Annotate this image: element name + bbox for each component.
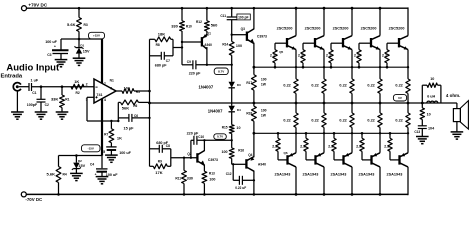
- svg-text:7: 7: [104, 82, 106, 86]
- svg-text:560: 560: [211, 23, 218, 28]
- svg-text:2.2: 2.2: [326, 54, 331, 58]
- resistor R6 56K feedback: [118, 101, 120, 103]
- capacitor C10 220 pF: [190, 140, 192, 157]
- svg-text:100pF: 100pF: [27, 103, 38, 107]
- svg-text:2.2: 2.2: [384, 144, 389, 148]
- svg-text:Q6: Q6: [284, 151, 288, 155]
- node feedback junctions: [117, 120, 119, 122]
- svg-text:741: 741: [96, 93, 102, 97]
- svg-text:2.2: 2.2: [300, 144, 305, 148]
- svg-text:+70V DC: +70V DC: [28, 2, 47, 7]
- wire collector to +rail #2: [323, 8, 325, 36]
- svg-text:15V: 15V: [78, 164, 85, 168]
- svg-text:C3973: C3973: [257, 35, 267, 39]
- svg-text:2SC5200: 2SC5200: [277, 26, 293, 30]
- resistor 2.2 base bottom #5: [389, 133, 391, 138]
- transistor 2SA1943 output PNP #2: [314, 155, 316, 164]
- node input junction C2: [40, 85, 43, 88]
- svg-text:2SA1943: 2SA1943: [331, 173, 347, 177]
- wire jack ground lead: [16, 91, 18, 112]
- resistor 2.2 base top #2: [302, 63, 304, 67]
- resistor R3 5.6K from +70V: [78, 7, 81, 10]
- transistor Q3 C3973 NPN predriver: [246, 32, 248, 41]
- resistor 2.2 base top #3: [330, 63, 332, 67]
- ground under C13: [416, 136, 429, 138]
- svg-text:10: 10: [427, 113, 431, 117]
- svg-text:6 uH: 6 uH: [427, 95, 435, 99]
- transistor Q4 A940 PNP predriver: [245, 159, 247, 168]
- svg-text:2SA1943: 2SA1943: [303, 173, 319, 177]
- resistor 0.22 emitter top #3: [351, 50, 353, 79]
- svg-text:A940: A940: [258, 163, 266, 167]
- svg-text:0.22 uF: 0.22 uF: [235, 186, 246, 190]
- wire VAS node vertical: [149, 39, 151, 166]
- wire output rail: [150, 102, 457, 104]
- svg-text:1K: 1K: [74, 79, 79, 84]
- wire op-amp pin 4 supply lead: [101, 99, 103, 156]
- svg-text:2: 2: [86, 83, 88, 87]
- svg-text:1N4007: 1N4007: [208, 109, 223, 114]
- svg-text:D4: D4: [237, 108, 241, 112]
- resistor 0.22 emitter top #4: [379, 50, 381, 79]
- wire -15V node line: [59, 155, 103, 157]
- node input junction R1: [61, 85, 64, 88]
- resistor 0.22 emitter bottom #3: [351, 103, 353, 113]
- svg-text:6: 6: [110, 87, 112, 91]
- wire collector to +rail #3: [351, 8, 353, 36]
- svg-text:R3: R3: [84, 23, 88, 27]
- svg-text:Audio Input: Audio Input: [6, 63, 60, 74]
- wire collector to -rail #4: [379, 167, 381, 195]
- transistor 2SC5200 output NPN #1: [286, 38, 288, 47]
- node output rail junction #5: [407, 102, 410, 105]
- svg-text:2SC5200: 2SC5200: [389, 26, 405, 30]
- capacitor C7 680 pF: [150, 55, 162, 57]
- svg-text:C12: C12: [226, 172, 232, 176]
- ground under C3: [55, 59, 68, 61]
- wire Q1 base line: [182, 41, 202, 43]
- wire top base drive rail: [254, 66, 408, 68]
- svg-text:100: 100: [209, 178, 215, 182]
- svg-text:D2: D2: [78, 159, 82, 163]
- svg-text:0.22: 0.22: [367, 118, 374, 122]
- resistor 0.22 emitter top #2: [323, 50, 325, 79]
- svg-text:R12: R12: [196, 20, 202, 24]
- svg-text:0.22: 0.22: [339, 118, 346, 122]
- svg-text:1W: 1W: [261, 82, 267, 86]
- svg-text:17K: 17K: [155, 170, 162, 175]
- svg-text:100 pF: 100 pF: [238, 16, 248, 20]
- node Zobel junction: [421, 102, 424, 105]
- node +15V junction: [78, 38, 81, 41]
- svg-text:2SC5200: 2SC5200: [333, 26, 349, 30]
- svg-text:2SA1943: 2SA1943: [359, 173, 375, 177]
- svg-text:C9: C9: [187, 60, 191, 64]
- label -15V: [82, 145, 101, 152]
- ground under D1: [73, 57, 86, 59]
- svg-text:100: 100: [124, 87, 130, 91]
- resistor 2.2 base bottom #2: [305, 133, 307, 138]
- svg-text:R15: R15: [222, 125, 228, 129]
- node 0.7V junction: [231, 139, 233, 141]
- svg-text:D3: D3: [237, 83, 241, 87]
- resistor 2.2 base bottom #3: [333, 133, 335, 138]
- connector J1 RCA audio input jack: [13, 83, 21, 91]
- ground under R1: [56, 111, 69, 113]
- wire collector to +rail #5: [407, 7, 409, 35]
- svg-text:R13: R13: [209, 172, 215, 176]
- svg-text:100: 100: [261, 108, 267, 112]
- svg-text:2.2: 2.2: [298, 54, 303, 58]
- node R10 junctions: [181, 41, 183, 43]
- capacitor C6 15 pF feedback: [118, 117, 129, 119]
- wire Q4 base line: [232, 163, 247, 165]
- zener diode D2 15V: [75, 154, 78, 157]
- svg-text:0.22: 0.22: [311, 83, 318, 87]
- svg-text:2.2: 2.2: [382, 54, 387, 58]
- svg-text:1K: 1K: [117, 135, 122, 140]
- svg-text:N1: N1: [110, 78, 114, 82]
- node R5 output junction: [148, 90, 151, 93]
- resistor R18 100 1W: [253, 103, 255, 106]
- resistor 0.22 emitter bottom #2: [323, 103, 325, 113]
- transistor 2SA1943 output PNP #1: [286, 155, 288, 164]
- wire Q3 base line: [232, 34, 247, 36]
- resistor R14 100: [231, 35, 233, 42]
- resistor R17 100 1W: [253, 66, 256, 69]
- svg-text:220 pF: 220 pF: [187, 131, 199, 135]
- svg-text:R4: R4: [63, 173, 67, 177]
- wire R8 C7 right bar: [172, 39, 174, 56]
- resistor R11 330: [183, 157, 185, 159]
- wire bottom base drive rail: [254, 132, 408, 134]
- resistor R1 33K input bias: [61, 87, 63, 95]
- svg-text:R17: R17: [246, 81, 252, 85]
- svg-text:R10: R10: [186, 25, 192, 29]
- capacitor C2 100pF input filter: [40, 87, 42, 100]
- svg-text:15 pF: 15 pF: [124, 127, 135, 131]
- svg-text:C10: C10: [198, 135, 204, 139]
- zener diode D1 15V: [78, 39, 80, 48]
- wire collector to -rail #3: [351, 167, 353, 195]
- node Q1 collector junction: [206, 64, 208, 66]
- svg-text:C4: C4: [90, 162, 94, 166]
- svg-text:2.2: 2.2: [328, 144, 333, 148]
- svg-text:C3973: C3973: [208, 158, 218, 162]
- inductor L1 6 uH: [427, 101, 431, 103]
- node output rail junction #4: [379, 102, 382, 105]
- resistor 2.2 base bottom #4: [361, 133, 363, 138]
- svg-text:+: +: [54, 44, 56, 48]
- ground under C2: [35, 111, 48, 113]
- resistor R5 100 op-amp output: [116, 90, 122, 92]
- resistor 0.22 emitter top #1: [295, 50, 297, 79]
- svg-text:R5: R5: [136, 90, 140, 94]
- capacitor C1 1 uF input coupling: [28, 83, 30, 91]
- transistor 2SA1943 output PNP #3: [342, 155, 344, 164]
- svg-text:2.2: 2.2: [356, 144, 361, 148]
- svg-text:100: 100: [221, 150, 227, 154]
- node Q3 base junction: [231, 34, 233, 36]
- svg-text:C1: C1: [32, 91, 36, 95]
- svg-text:+15V: +15V: [93, 34, 100, 38]
- node bias top junction: [231, 64, 233, 66]
- wire collector to +rail #1: [295, 8, 297, 36]
- svg-text:1N4007: 1N4007: [199, 84, 214, 89]
- resistor 2.2 base top #5: [386, 63, 388, 67]
- svg-text:C7: C7: [166, 59, 170, 63]
- svg-text:2.2: 2.2: [354, 54, 359, 58]
- wire op-amp pin 3 feedback lead: [87, 96, 94, 98]
- wire +15V node to op-amp pin 7: [79, 38, 102, 40]
- resistor 0.22 emitter top #5: [407, 50, 409, 79]
- capacitor C9 220 pF: [182, 64, 193, 66]
- svg-text:A940: A940: [204, 43, 212, 47]
- svg-text:R9: R9: [158, 160, 162, 164]
- resistor R8 18K: [150, 38, 155, 40]
- capacitor C13 104 Zobel: [418, 125, 427, 127]
- wire +70V top supply rail: [26, 7, 407, 9]
- resistor R13 100 Q2 emitter: [202, 171, 207, 183]
- ground under speaker: [451, 131, 464, 133]
- resistor R4 5.6K from -70V: [57, 193, 60, 196]
- capacitor C5 100 uF: [106, 146, 116, 148]
- svg-text:R14: R14: [222, 43, 228, 47]
- svg-text:104: 104: [428, 127, 435, 131]
- svg-text:0.22: 0.22: [283, 118, 290, 122]
- wire collector to -rail #1: [295, 167, 297, 195]
- svg-text:15V: 15V: [83, 50, 90, 54]
- resistor 0.22 emitter bottom #5: [407, 103, 409, 113]
- label 0.7V: [214, 134, 227, 140]
- capacitor C11 100 pF: [230, 7, 233, 10]
- diode D3 1N4007: [231, 65, 233, 82]
- svg-text:0.22: 0.22: [311, 118, 318, 122]
- svg-text:Q3: Q3: [241, 27, 245, 31]
- transistor Q1 A940 PNP driver: [201, 37, 203, 46]
- op-amp U1 741: [94, 79, 116, 103]
- wire speaker to ground: [456, 122, 458, 132]
- label 0V output node: [393, 95, 406, 101]
- svg-text:0.22: 0.22: [339, 83, 346, 87]
- transistor 2SA1943 output PNP #5: [398, 155, 400, 164]
- svg-text:R2: R2: [76, 91, 80, 95]
- wire R9 C8 right bar: [170, 149, 172, 167]
- svg-text:100: 100: [236, 44, 242, 48]
- svg-text:4: 4: [104, 98, 106, 102]
- svg-text:Q4: Q4: [248, 153, 252, 157]
- resistor 2.2 base bottom #1: [277, 133, 279, 138]
- svg-text:0.22: 0.22: [395, 118, 402, 122]
- transistor 2SA1943 output PNP #4: [370, 155, 372, 164]
- svg-text:Entrada: Entrada: [1, 74, 23, 80]
- capacitor C12 coupling: [232, 163, 234, 165]
- wire feedback left bar: [117, 102, 119, 121]
- transistor 2SC5200 output NPN #4: [370, 38, 372, 47]
- svg-text:56K: 56K: [122, 106, 129, 111]
- svg-text:33K: 33K: [51, 97, 58, 102]
- svg-text:R18: R18: [246, 111, 252, 115]
- wire input signal line: [32, 86, 95, 88]
- transistor 2SC5200 output NPN #5: [398, 38, 400, 47]
- svg-text:-15V: -15V: [88, 146, 94, 150]
- capacitor C4 100 uF supply filter: [101, 156, 103, 169]
- svg-text:C2: C2: [45, 103, 49, 107]
- svg-text:100: 100: [261, 77, 267, 81]
- svg-text:R6: R6: [133, 104, 137, 108]
- svg-text:2SA1943: 2SA1943: [387, 173, 403, 177]
- svg-text:Q1: Q1: [207, 32, 211, 36]
- ground under D2: [70, 172, 83, 174]
- svg-text:0.22: 0.22: [283, 83, 290, 87]
- svg-text:2SC5200: 2SC5200: [305, 26, 321, 30]
- svg-text:100 uF: 100 uF: [119, 151, 131, 155]
- node R17 output junction: [253, 102, 256, 105]
- speaker 4 ohm: [456, 103, 458, 109]
- svg-text:Q2: Q2: [187, 152, 191, 156]
- svg-text:C5: C5: [101, 150, 105, 154]
- svg-text:C3: C3: [47, 53, 51, 57]
- svg-text:D1: D1: [80, 44, 84, 48]
- node output rail junction #3: [351, 102, 354, 105]
- svg-text:680 pF: 680 pF: [155, 64, 167, 68]
- svg-text:10: 10: [430, 77, 434, 81]
- resistor R12 560: [206, 7, 209, 10]
- resistor 2.2 base top #1: [274, 63, 276, 67]
- svg-text:R11: R11: [175, 177, 181, 181]
- ground jack ground: [11, 111, 24, 113]
- node output rail junction #1: [295, 102, 298, 105]
- svg-text:0.7V: 0.7V: [217, 135, 223, 139]
- svg-text:0V: 0V: [398, 96, 402, 100]
- svg-text:5.6K: 5.6K: [67, 22, 76, 27]
- svg-text:2.2: 2.2: [270, 54, 275, 58]
- wire Q2 base line: [171, 157, 198, 159]
- resistor R7 1K to ground leg: [110, 120, 112, 122]
- node +70V DC terminal: [22, 6, 27, 11]
- resistor R16 100: [231, 140, 233, 148]
- resistor 0.22 emitter bottom #4: [379, 103, 381, 113]
- svg-text:C11: C11: [220, 14, 226, 18]
- svg-text:R16: R16: [238, 149, 244, 153]
- resistor 10 Zobel: [421, 103, 423, 108]
- label +15V: [89, 32, 105, 39]
- wire collector to -rail #5: [407, 167, 409, 195]
- svg-text:R1: R1: [65, 98, 69, 102]
- svg-text:10: 10: [236, 126, 240, 130]
- wire collector to -rail #2: [323, 167, 325, 195]
- svg-text:2SC5200: 2SC5200: [361, 26, 377, 30]
- svg-text:1W: 1W: [261, 113, 267, 117]
- capacitor C8 680 pF: [150, 148, 160, 150]
- label 8.7V: [214, 68, 228, 75]
- resistor 2.2 base top #4: [358, 63, 360, 67]
- resistor 10 damping parallel: [421, 85, 423, 103]
- svg-text:18K: 18K: [158, 31, 165, 36]
- transistor Q2 C3973 NPN driver: [196, 153, 198, 162]
- resistor R15 10: [229, 125, 234, 134]
- svg-text:330: 330: [171, 24, 178, 29]
- svg-text:C6: C6: [134, 114, 138, 118]
- node -70V DC terminal: [21, 192, 26, 197]
- svg-text:0.22: 0.22: [395, 83, 402, 87]
- resistor 0.22 emitter bottom #1: [295, 103, 297, 113]
- node output rail junction #2: [323, 102, 326, 105]
- diode D4 1N4007: [229, 106, 235, 112]
- svg-text:0.22: 0.22: [367, 83, 374, 87]
- resistor R10 330: [181, 7, 184, 10]
- svg-text:4 ohm.: 4 ohm.: [446, 93, 461, 98]
- wire -70V bottom supply rail: [26, 193, 408, 195]
- svg-text:-70V DC: -70V DC: [25, 197, 43, 202]
- ground under C5: [105, 154, 118, 156]
- transistor 2SC5200 output NPN #2: [314, 38, 316, 47]
- wire collector to +rail #4: [379, 8, 381, 36]
- svg-text:2SA1943: 2SA1943: [275, 173, 291, 177]
- svg-text:C13: C13: [414, 130, 420, 134]
- svg-text:8.7V: 8.7V: [218, 69, 224, 73]
- capacitor C3 100 uF supply filter: [61, 38, 79, 40]
- ground under C4: [96, 176, 109, 178]
- svg-text:5.6K: 5.6K: [47, 172, 56, 177]
- node R18 junction: [253, 132, 256, 135]
- svg-text:Q5: Q5: [279, 50, 283, 54]
- svg-text:R8: R8: [156, 43, 160, 47]
- svg-text:330: 330: [187, 177, 193, 181]
- svg-text:2.2: 2.2: [272, 144, 277, 148]
- svg-text:220 pF: 220 pF: [189, 72, 201, 76]
- resistor R9 17K: [150, 165, 154, 167]
- resistor R2 1K to op-amp input: [71, 84, 84, 89]
- svg-text:C8: C8: [166, 144, 170, 148]
- transistor 2SC5200 output NPN #3: [342, 38, 344, 47]
- svg-text:1 uF: 1 uF: [31, 79, 39, 83]
- svg-text:R7: R7: [104, 133, 108, 137]
